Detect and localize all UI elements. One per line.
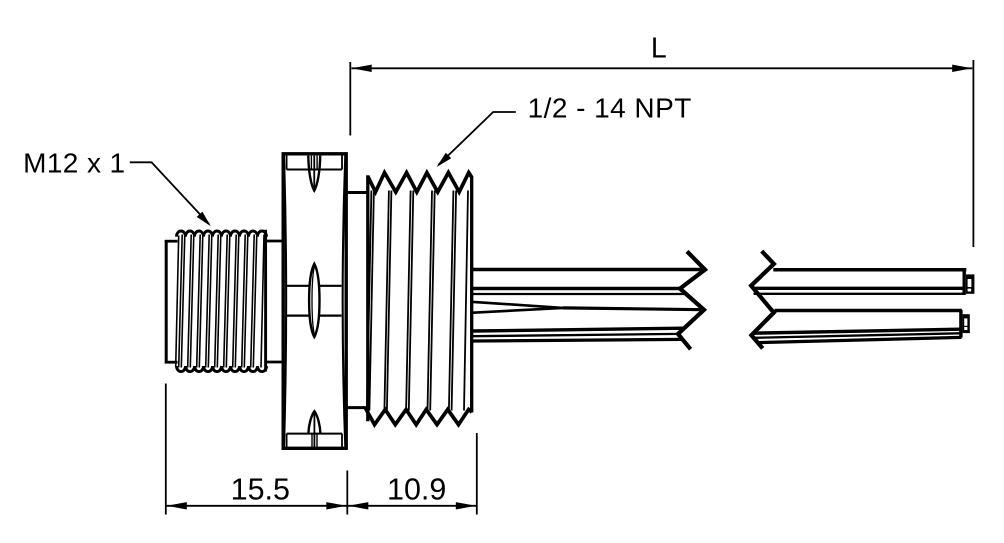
hex nut bottom V-groove <box>308 411 320 433</box>
wire 2 stripped end ferrule <box>959 310 962 338</box>
dimension L line with arrows <box>352 67 973 69</box>
cable break symbol (left) <box>678 251 705 349</box>
svg-text:1/2 - 14 NPT: 1/2 - 14 NPT <box>528 92 692 123</box>
svg-text:L: L <box>651 33 667 65</box>
hex nut top V-groove <box>308 156 320 191</box>
wire 1 stripped end ferrule <box>963 269 966 294</box>
dimension middle extension line <box>346 471 348 515</box>
dimension L right extension line <box>972 60 974 247</box>
neck between hex nut and NPT thread <box>347 191 368 194</box>
svg-text:M12 x 1: M12 x 1 <box>23 148 125 179</box>
leader line for M12 label <box>130 161 152 163</box>
NPT thread flank lines <box>367 191 372 411</box>
M12 thread right end edge <box>264 230 267 372</box>
NPT thread top zigzag crest <box>368 173 472 192</box>
dimension 15.5 left extension line <box>165 384 167 515</box>
neck between M12 thread and hex nut <box>265 240 284 243</box>
hex nut mid facet lines <box>287 285 310 287</box>
hex nut left facet arc <box>284 155 286 447</box>
NPT thread bottom zigzag crest <box>365 408 472 425</box>
M12 thread body left end cap <box>165 240 168 363</box>
svg-text:10.9: 10.9 <box>387 473 446 507</box>
hex nut outline <box>283 154 346 449</box>
hex nut center lens edge <box>309 264 319 337</box>
hex nut right facet arc <box>343 155 346 447</box>
leader line for NPT label <box>493 111 516 113</box>
wires right bundle <box>773 268 966 272</box>
svg-text:15.5: 15.5 <box>231 473 290 507</box>
bottom dimension line with arrows <box>167 505 476 507</box>
dimension L left extension line <box>349 62 351 136</box>
NPT thread body edges <box>366 175 369 421</box>
M12 thread flank lines <box>179 235 183 368</box>
M12 thread crest scallops (bottom) <box>177 366 267 372</box>
cable break symbol (right) <box>751 251 774 348</box>
M12 thread crest scallops (top) <box>177 231 267 237</box>
dimension 10.9 right extension line <box>476 433 478 515</box>
wires left bundle <box>473 268 705 272</box>
hex nut chamfer band lines <box>287 169 342 171</box>
